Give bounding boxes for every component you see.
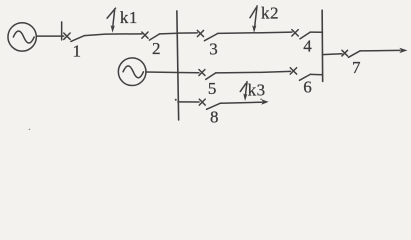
svg-text:k3: k3 (248, 81, 266, 100)
svg-text:3: 3 (209, 39, 218, 58)
svg-text:2: 2 (152, 39, 161, 58)
svg-text:8: 8 (210, 108, 219, 127)
svg-text:5: 5 (208, 79, 217, 98)
svg-text:k2: k2 (261, 4, 279, 23)
svg-text:6: 6 (303, 78, 312, 97)
svg-text:7: 7 (352, 58, 361, 77)
svg-text:4: 4 (303, 36, 312, 55)
svg-text:k1: k1 (120, 8, 138, 27)
svg-text:1: 1 (73, 42, 82, 61)
